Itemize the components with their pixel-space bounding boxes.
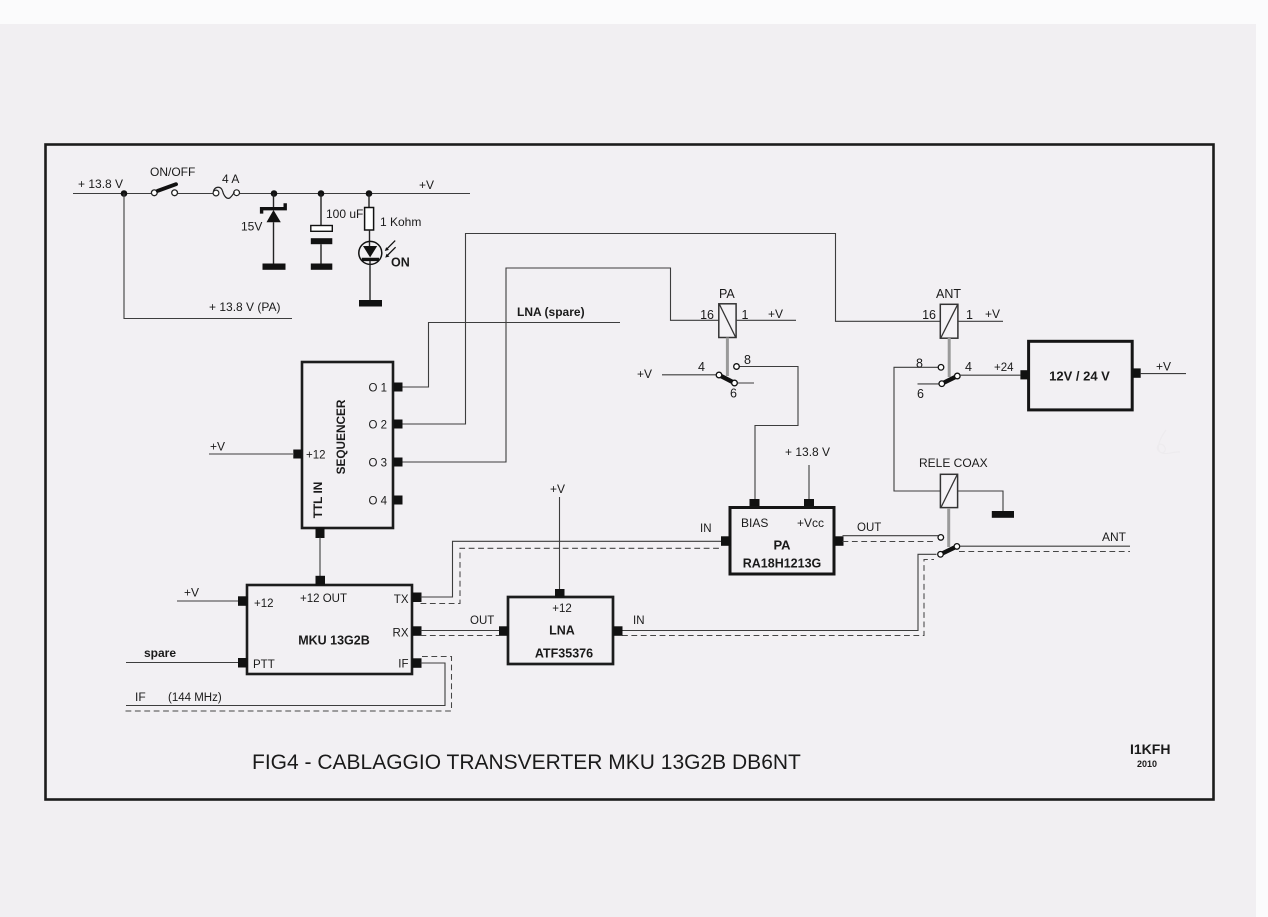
svg-text:2010: 2010 xyxy=(1137,759,1157,769)
wire PA contact 6 stub xyxy=(737,382,754,384)
wire contact 8 to PA BIAS xyxy=(739,367,798,500)
svg-text:LNA (spare): LNA (spare) xyxy=(517,305,585,319)
LED D2 ON xyxy=(359,230,410,300)
svg-text:6: 6 xyxy=(917,387,924,401)
svg-text:ANT: ANT xyxy=(1102,530,1127,544)
svg-text:IF: IF xyxy=(398,659,408,671)
pin O4 xyxy=(394,496,403,505)
pin TTL IN xyxy=(316,528,325,539)
svg-text:16: 16 xyxy=(700,308,714,322)
wire PA OUT coax (solid) xyxy=(843,535,939,537)
svg-text:1 Kohm: 1 Kohm xyxy=(380,215,421,229)
pin +Vcc xyxy=(804,499,814,508)
wire ANT relay actuator xyxy=(948,338,951,377)
amplifier PA RA18H1213G box xyxy=(730,508,834,575)
wire RELE COAX coil to ground xyxy=(958,491,1003,511)
wire LNA IN coax shield (dashed) xyxy=(622,560,934,636)
svg-text:(144 MHz): (144 MHz) xyxy=(168,692,222,704)
svg-text:+V: +V xyxy=(1156,360,1171,374)
svg-text:1: 1 xyxy=(966,308,973,322)
relay PA contact arm xyxy=(719,375,735,383)
relay ANT contact arm xyxy=(942,376,958,384)
pin TX xyxy=(412,593,422,603)
pin +12 (MKU) xyxy=(238,596,248,606)
relay ANT contact 8 xyxy=(916,357,944,371)
svg-text:+ 13.8 V (PA): + 13.8 V (PA) xyxy=(209,300,280,314)
wire +13.8V to +Vcc pin xyxy=(808,465,810,500)
pin O2 xyxy=(394,420,403,429)
svg-text:16: 16 xyxy=(922,308,936,322)
amplifier LNA ATF35376 box xyxy=(508,597,613,664)
wire PA relay actuator xyxy=(726,338,729,377)
junction xyxy=(271,190,278,197)
svg-text:O 2: O 2 xyxy=(368,420,387,432)
svg-text:+V: +V xyxy=(637,367,652,381)
wire ANT output coax (solid) xyxy=(960,545,1130,547)
svg-text:RA18H1213G: RA18H1213G xyxy=(743,557,822,571)
svg-text:+ 13.8 V: + 13.8 V xyxy=(78,177,123,191)
wire O2 to ANT relay pin 16 xyxy=(397,234,941,425)
svg-text:PTT: PTT xyxy=(253,659,275,671)
relay ANT contact 4 xyxy=(955,360,973,379)
relay ANT coil xyxy=(922,287,1000,338)
wire +V to contact 4 xyxy=(662,374,716,376)
relay PA contact 4 xyxy=(698,360,722,378)
svg-text:+V: +V xyxy=(210,440,225,454)
pin +24 (12V/24V left) xyxy=(1020,370,1028,379)
svg-text:4 A: 4 A xyxy=(222,172,239,186)
pin O3 xyxy=(394,458,403,467)
wire ANT output coax shield (dashed) xyxy=(959,551,1130,553)
relay RELE COAX contact RX xyxy=(938,552,944,558)
pin +V (12V/24V right) xyxy=(1132,368,1141,377)
svg-text:6: 6 xyxy=(730,387,737,401)
relay RELE COAX contact arm xyxy=(941,546,957,554)
svg-text:MKU 13G2B: MKU 13G2B xyxy=(298,634,370,648)
svg-text:TTL IN: TTL IN xyxy=(311,482,325,518)
svg-text:4: 4 xyxy=(698,360,705,374)
sequencer U1 box xyxy=(302,362,393,528)
relay RELE COAX coil xyxy=(919,456,988,508)
svg-text:O 4: O 4 xyxy=(368,496,387,508)
wire +V to LNA +12 xyxy=(559,497,561,590)
relay PA contact 6 xyxy=(730,380,737,400)
signature I1KFH xyxy=(1130,741,1170,769)
wire LNA IN to RELE COAX (solid) xyxy=(622,554,937,630)
pin BIAS xyxy=(750,499,760,508)
svg-text:100 uF: 100 uF xyxy=(326,207,363,221)
svg-text:PA: PA xyxy=(719,287,735,301)
svg-text:+12: +12 xyxy=(254,598,274,610)
pin O1 xyxy=(394,383,403,392)
capacitor C1 100uF xyxy=(311,194,364,264)
svg-text:PA: PA xyxy=(773,538,791,553)
svg-text:ANT: ANT xyxy=(936,287,961,301)
wire IF coax shield (dashed) xyxy=(124,657,452,712)
relay ANT contact 6 xyxy=(917,381,945,401)
svg-text:12V / 24 V: 12V / 24 V xyxy=(1049,369,1110,384)
svg-text:SEQUENCER: SEQUENCER xyxy=(334,399,348,474)
wire contact 8 to RELE COAX coil xyxy=(894,367,940,491)
relay PA coil xyxy=(700,287,783,338)
svg-text:RELE COAX: RELE COAX xyxy=(919,456,988,470)
svg-text:ATF35376: ATF35376 xyxy=(535,647,593,661)
pin OUT (LNA left) xyxy=(499,626,509,636)
pin IF xyxy=(412,658,422,668)
svg-text:+V: +V xyxy=(550,482,565,496)
wire RELE COAX actuator xyxy=(947,508,950,547)
fuse F1 4A xyxy=(213,172,239,198)
wire ANT relay pin1 to +V xyxy=(958,320,1003,322)
svg-text:OUT: OUT xyxy=(470,615,494,627)
pin OUT (PA) xyxy=(834,536,844,546)
svg-text:8: 8 xyxy=(744,353,751,367)
zener diode D1 15V xyxy=(241,194,285,264)
pin +12 (sequencer) xyxy=(293,450,302,459)
pin RX xyxy=(412,626,422,636)
wire PA OUT coax shield (dashed) xyxy=(843,541,937,543)
resistor R1 1 Kohm xyxy=(365,194,422,231)
junction xyxy=(366,190,373,197)
relay RELE COAX contact ANT xyxy=(954,544,960,550)
junction xyxy=(121,190,128,197)
converter 12V/24V box xyxy=(1029,341,1133,410)
wire spare to PTT xyxy=(126,662,239,664)
wire TX coax to PA IN (solid) xyxy=(421,541,722,597)
svg-text:+24: +24 xyxy=(994,362,1014,374)
svg-text:I1KFH: I1KFH xyxy=(1130,741,1170,757)
wire +V to sequencer +12 xyxy=(209,453,293,455)
wire 12V/24V out to +V xyxy=(1141,373,1186,375)
svg-text:IN: IN xyxy=(700,523,712,535)
svg-text:+12 OUT: +12 OUT xyxy=(300,593,347,605)
wire +13.8V (PA) branch xyxy=(124,194,292,319)
wire TTL IN to +12 OUT xyxy=(319,538,321,578)
svg-text:+12: +12 xyxy=(552,603,572,615)
svg-text:4: 4 xyxy=(965,360,972,374)
wire main rail xyxy=(73,193,470,195)
wire O3 to PA relay pin 16 xyxy=(397,268,719,462)
wire IF coax (solid) xyxy=(126,663,445,706)
svg-text:+V: +V xyxy=(419,178,434,192)
svg-text:+V: +V xyxy=(985,307,1000,321)
relay RELE COAX contact PA-OUT xyxy=(938,535,944,541)
svg-text:IF: IF xyxy=(135,690,146,704)
svg-text:ON/OFF: ON/OFF xyxy=(150,165,195,179)
pin IN (PA) xyxy=(721,536,731,546)
svg-text:+V: +V xyxy=(184,586,199,600)
svg-text:FIG4 - CABLAGGIO TRANSVERTER M: FIG4 - CABLAGGIO TRANSVERTER MKU 13G2B D… xyxy=(252,751,801,774)
wire contact 4 to 12V/24V xyxy=(960,374,1020,376)
ground (capacitor) xyxy=(311,264,333,270)
ground (zener) xyxy=(263,264,286,270)
transverter MKU 13G2B box xyxy=(247,585,412,674)
svg-text:BIAS: BIAS xyxy=(741,516,768,530)
wire +V to MKU +12 xyxy=(177,600,239,602)
svg-text:+Vcc: +Vcc xyxy=(797,516,824,530)
junction xyxy=(318,190,325,197)
pencil mark xyxy=(1157,430,1180,454)
relay PA contact 8 xyxy=(734,353,751,369)
svg-text:+ 13.8 V: + 13.8 V xyxy=(785,445,830,459)
pin +12 (LNA) xyxy=(555,589,565,598)
wire O1 to LNA (spare) xyxy=(397,323,620,388)
svg-text:+V: +V xyxy=(768,307,783,321)
svg-text:15V: 15V xyxy=(241,220,262,234)
svg-text:IN: IN xyxy=(633,615,645,627)
pin PTT xyxy=(238,658,248,668)
svg-text:O 1: O 1 xyxy=(368,383,387,395)
wire PA relay pin1 to +V xyxy=(736,319,796,321)
ground (RELE COAX coil) xyxy=(992,511,1014,518)
wire TX coax shield (dashed) xyxy=(421,548,722,603)
svg-text:ON: ON xyxy=(391,256,410,270)
wire ANT contact 6 stub xyxy=(918,383,940,385)
svg-text:+12: +12 xyxy=(306,450,326,462)
svg-text:OUT: OUT xyxy=(857,522,881,534)
svg-text:TX: TX xyxy=(394,594,409,606)
wire RX coax shield (dashed) xyxy=(421,635,500,637)
svg-text:LNA: LNA xyxy=(549,624,575,638)
svg-text:O 3: O 3 xyxy=(368,458,387,470)
svg-text:8: 8 xyxy=(916,357,923,371)
pin +12 OUT xyxy=(316,576,326,586)
svg-text:spare: spare xyxy=(144,646,176,660)
ground (LED) xyxy=(359,300,382,307)
pin IN (LNA right) xyxy=(613,626,623,636)
border frame xyxy=(46,145,1214,800)
switch ON/OFF xyxy=(150,165,195,196)
wire RX coax to LNA OUT (solid) xyxy=(421,630,500,632)
svg-text:RX: RX xyxy=(393,628,409,640)
